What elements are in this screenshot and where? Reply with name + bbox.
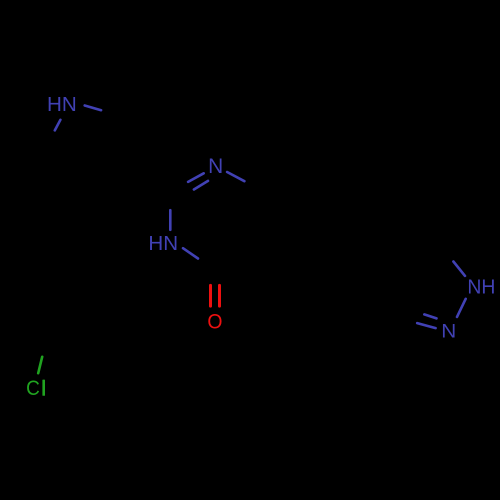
bond half: pyrazole C3=N2 double bond main line, N side bbox=[417, 323, 435, 328]
bond half: pyrazole C5-N1 single bond, N side bbox=[453, 262, 465, 276]
bond half: pyrimidine N1-C6 single bond, N side bbox=[227, 172, 244, 181]
wire: pyrimidinone C5=C6 inner double line (invisible on black) bbox=[253, 196, 256, 241]
svg-text:O: O bbox=[207, 310, 222, 333]
bond half: pyrazole C3=N2 double bond inner line, N side bbox=[424, 314, 436, 318]
wire: phenyl C3-C2 bond (invisible on black) bbox=[350, 244, 395, 270]
wire: chlorophenyl C1-C2 bond (invisible on black) bbox=[48, 288, 60, 338]
wire: pyrrole C3-C4 bond (carbon, invisible on black) bbox=[87, 166, 139, 172]
wire: phenyl C2-C1 bond (invisible on black) bbox=[305, 244, 350, 270]
wire: chlorophenyl C1-C6 bond (invisible on black) bbox=[48, 338, 93, 364]
svg-text:HN: HN bbox=[148, 233, 178, 255]
wire: pyrazole C3-C4 bond (invisible on black) bbox=[398, 264, 405, 321]
wire: pyrrole C4-C5 bond (carbon, invisible on black) bbox=[47, 144, 87, 172]
svg-text:N: N bbox=[441, 320, 456, 342]
wire: pyrrole C3 to pyrimidine C2 biaryl bond (invisible on black) bbox=[139, 166, 171, 192]
wire: pyrazole C4-C5 bond (invisible on black) bbox=[404, 244, 439, 264]
bond half: pyrimidine N3-C4 single bond, N side bbox=[183, 248, 198, 258]
bond half: pyrrole N1-C5 single bond, N side bbox=[55, 120, 61, 131]
svg-text:N: N bbox=[208, 155, 223, 178]
wire: phenyl C4-C3 bond (invisible on black) bbox=[394, 270, 397, 322]
wire: pyrimidinone C5 to phenyl C1 bond (invisible on black) bbox=[260, 244, 305, 270]
wire: phenyl C1-C6 bond (invisible on black) bbox=[304, 270, 307, 322]
bond half: pyrimidine C2=N1 double bond inner line, N side bbox=[194, 181, 208, 190]
bond half: pyrimidine N3-C2 single bond, N side bbox=[169, 210, 172, 230]
wire: phenyl C5-C4 bond (invisible on black) bbox=[350, 322, 395, 348]
svg-text:NH: NH bbox=[467, 275, 495, 298]
bond half: C4=O carbonyl double bond left line, O side bbox=[209, 285, 212, 306]
wire: pyrimidinone C5-C6 bond (invisible on black) bbox=[259, 192, 262, 244]
bond half: pyrimidine C2=N1 double bond main line, N side bbox=[188, 173, 204, 182]
wire: phenyl C6-C5 bond (invisible on black) bbox=[305, 322, 350, 348]
wire: pyrrole C2-C3 bond (carbon, invisible on black) bbox=[121, 116, 139, 166]
wire: pyrimidinone C4-C5 bond (invisible on black) bbox=[216, 244, 261, 270]
bond: pyrazole N1-N2 single bond (blue, both nitrogens) bbox=[457, 299, 466, 317]
bond half: pyrrole N1-C2 single bond, N side bbox=[85, 106, 101, 111]
wire: chlorophenyl C2-C3 bond (invisible on black) bbox=[60, 270, 110, 288]
svg-text:C: C bbox=[26, 377, 40, 400]
bond half: C4=O carbonyl double bond right line, O side bbox=[218, 285, 221, 306]
svg-text:HN: HN bbox=[47, 93, 77, 116]
atom label: chlorine (Cl) - l glyph bar bbox=[42, 380, 45, 396]
bond half: aryl C-Cl single bond, Cl side bbox=[38, 357, 42, 373]
